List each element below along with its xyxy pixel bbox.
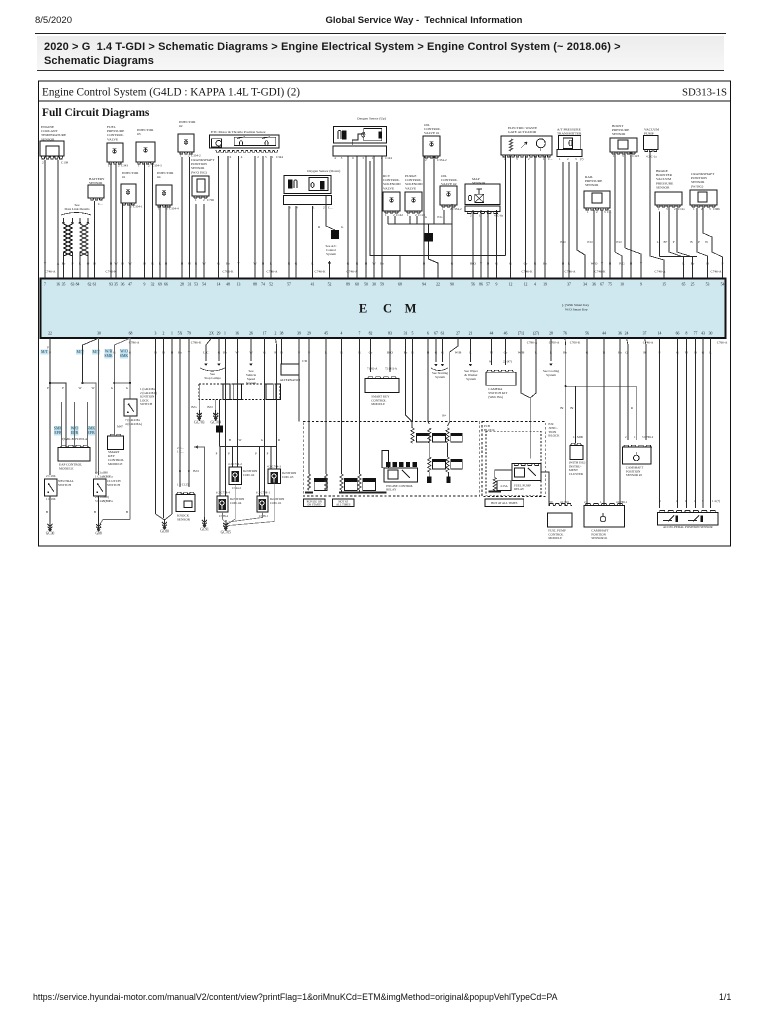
svg-text:System: System [326,252,336,256]
svg-text:W: W [78,386,81,390]
svg-text:B: B [110,262,113,266]
wire [238,156,240,278]
svg-text:B: B [179,469,182,473]
svg-text:1: 1 [272,155,274,159]
svg-text:M: M [405,302,417,316]
svg-text:Br: Br [543,262,547,266]
svg-text:B: B [121,262,124,266]
svg-text:C12a: C12a [678,207,685,211]
svg-text:B: B [126,510,129,514]
svg-text:1: 1 [224,332,226,336]
svg-text:P: P [216,452,218,456]
wire [110,164,112,278]
svg-text:34: 34 [583,283,587,287]
relay box grounds [427,476,431,483]
fuel pump relay feed wires [521,338,530,459]
svg-text:EPB: EPB [54,431,62,435]
wire [562,162,564,278]
junction dot A [49,382,51,384]
svg-text:B: B [365,262,368,266]
svg-text:66: 66 [676,332,680,336]
wire [63,258,65,278]
svg-text:B/O: B/O [470,262,476,266]
svg-text:GATE ACTUATOR: GATE ACTUATOR [508,130,537,134]
svg-text:P: P [673,240,675,244]
svg-text:BLOCK: BLOCK [548,434,560,438]
svg-text:C334-1: C334-1 [133,205,143,209]
svg-text:60: 60 [355,283,359,287]
wire [94,204,96,278]
25A fuse [493,478,496,491]
wire [262,156,264,278]
svg-text:(W/O ISG): (W/O ISG) [191,170,207,174]
knock sensor wires [179,338,181,487]
svg-text:90: 90 [450,283,454,287]
wire [487,210,489,278]
wire [451,204,453,278]
svg-text:B: B [690,240,693,244]
svg-text:1: 1 [313,206,315,210]
svg-text:26: 26 [249,332,253,336]
wire pin22 to neutral switch [49,338,51,475]
ignition coil supply junction [216,426,223,433]
svg-text:P: P [698,240,700,244]
svg-text:(?): (?) [580,157,583,161]
svg-text:1: 1 [559,157,561,161]
wire [312,206,314,278]
svg-text:L: L [657,240,659,244]
ground GC80 [162,522,167,524]
svg-text:M47: M47 [117,425,123,429]
wire [122,203,124,278]
svg-text:B: B [229,438,231,442]
svg-text:43: 43 [701,332,705,336]
svg-text:Br: Br [570,406,574,410]
svg-text:MODULE: MODULE [59,467,74,471]
svg-text:1: 1 [634,435,636,439]
svg-text:W: W [128,262,132,266]
svg-text:3: 3 [487,214,489,218]
svg-text:B/O: B/O [207,405,213,409]
svg-text:L: L [568,262,570,266]
svg-text:W: W [253,262,257,266]
svg-text:5: 5 [702,499,704,503]
wire [165,205,167,278]
svg-text:1 2 C125: 1 2 C125 [177,483,189,487]
ground GC705 [223,523,228,525]
wire [356,156,358,278]
svg-text:6: 6 [230,155,232,159]
wire [601,210,603,278]
svg-text:28: 28 [549,332,553,336]
svg-text:SENSOR: SENSOR [585,183,599,187]
title bar divider [39,100,731,102]
see wiper washer system [470,338,472,362]
svg-text:2: 2 [203,198,205,202]
svg-text:10: 10 [620,283,624,287]
svg-text:4 25A: 4 25A [500,484,508,488]
svg-text:1 C1aB(B0Ea: 1 C1aB(B0Ea [95,474,113,478]
svg-text:C...: C... [548,157,553,161]
relay merge wires [406,338,413,422]
vehicle speed wire [250,338,252,361]
svg-text:W/B: W/B [105,350,113,354]
wire [593,210,595,278]
svg-text:C: C [383,302,392,316]
svg-text:TRANSMITTER: TRANSMITTER [557,132,582,136]
wire [181,157,183,278]
svg-text:47: 47 [128,283,132,287]
wire [472,210,474,278]
wire [227,156,229,278]
noise capacitor wire [326,206,335,230]
svg-text:29: 29 [217,332,221,336]
svg-text:R: R [534,262,537,266]
ground junction block [428,224,430,233]
svg-text:1 C...: 1 C... [177,450,184,454]
svg-text:W: W [489,360,492,364]
svg-text:Oxygen Sensor (Up): Oxygen Sensor (Up) [357,117,387,121]
svg-text:4: 4 [494,214,496,218]
svg-text:SENSOR: SENSOR [89,181,103,185]
CKP ISG wires [697,208,708,278]
svg-text:5 C1aB(B0Ea: 5 C1aB(B0Ea [95,499,113,503]
heater supply jog line [370,161,506,255]
wire [544,156,546,278]
oil control valve 1 wire to bus [433,156,435,224]
accel pedal position sensor [659,338,661,508]
svg-text:2: 2 [275,332,277,336]
svg-text:2: 2 [148,164,150,168]
svg-text:A: A [57,262,60,266]
svg-text:Stop Lamps: Stop Lamps [204,376,221,380]
svg-text:C...: C... [328,206,333,210]
run label [304,499,326,507]
svg-text:System: System [435,375,445,379]
svg-text:22: 22 [436,283,440,287]
solenoid ground bus [388,223,452,225]
svg-text:C766-A: C766-A [717,341,728,345]
svg-text:7: 7 [359,332,361,336]
svg-text:B/O: B/O [193,469,199,473]
svg-text:13: 13 [237,283,241,287]
coil ground bus [229,485,236,524]
svg-text:P/O: P/O [587,240,593,244]
svg-text:L: L [79,262,81,266]
svg-text:W/O Smart Key: W/O Smart Key [565,308,588,312]
svg-text:C786-K: C786-K [191,341,202,345]
wire [218,156,220,278]
svg-text:83: 83 [388,332,392,336]
EPB control module [60,445,89,447]
wire [129,203,131,278]
svg-text:29: 29 [307,332,311,336]
svg-text:ACCEL PEDAL POSITION SENSOR: ACCEL PEDAL POSITION SENSOR [663,525,713,529]
svg-text:L: L [159,262,161,266]
svg-text:C139: C139 [61,161,68,165]
main relay dashed box [303,422,480,497]
fuse 2 [325,338,327,474]
knock shield to ground [194,447,205,517]
svg-text:88: 88 [253,283,257,287]
svg-text:Br: Br [560,406,564,410]
svg-text:R: R [188,469,191,473]
svg-text:24: 24 [625,332,629,336]
svg-text:30: 30 [97,332,101,336]
svg-text:41: 41 [311,283,315,287]
svg-text:BLOCK: BLOCK [484,428,496,432]
svg-text:Oxygen Sensor (Down): Oxygen Sensor (Down) [307,169,341,173]
svg-text:C124: C124 [385,156,392,160]
svg-text:Br: Br [62,262,66,266]
svg-text:R: R [288,262,291,266]
svg-text:22: 22 [48,332,52,336]
svg-text:GC91: GC91 [200,528,209,532]
svg-text:Br: Br [226,262,230,266]
svg-text:2: 2 [425,158,427,162]
svg-text:4: 4 [241,155,243,159]
svg-text:C746-A: C746-A [711,269,722,273]
svg-text:68: 68 [398,283,402,287]
svg-text:3: 3 [362,156,364,160]
svg-text:SWITCH: SWITCH [58,483,72,487]
wire [57,165,59,278]
M/T highlighted labels [41,349,49,354]
svg-text:1: 1 [372,156,374,160]
svg-text:P/O: P/O [616,240,622,244]
svg-text:C334-2: C334-2 [191,154,201,158]
svg-text:B: B [165,262,168,266]
svg-text:39: 39 [297,332,301,336]
svg-text:(27): (27) [533,332,540,336]
svg-text:C746-A: C746-A [347,269,358,273]
vacuum pump wire [650,152,664,278]
svg-text:B: B [487,262,490,266]
ignition lock switch [124,399,137,416]
svg-text:P/O: P/O [560,240,566,244]
svg-text:B/G: B/G [191,405,197,409]
svg-text:B: B [562,262,565,266]
svg-text:W/O: W/O [120,350,128,354]
svg-text:38: 38 [280,332,284,336]
wire [381,156,383,278]
svg-text:9: 9 [496,283,498,287]
svg-text:C706: C706 [207,198,214,202]
wire [115,164,117,278]
svg-text:32: 32 [151,283,155,287]
svg-text:75: 75 [608,283,612,287]
ER junction connector row [199,384,280,400]
svg-text:5: 5 [265,155,267,159]
svg-text:7 (41)-A: 7 (41)-A [367,367,378,371]
svg-text:21: 21 [469,332,473,336]
smart key feed bend to ground [100,520,130,524]
svg-text:14 M06: 14 M06 [573,435,583,439]
wire [152,163,154,278]
svg-text:SMK: SMK [87,427,96,431]
svg-text:W: W [238,438,241,442]
svg-text:G: G [347,262,350,266]
svg-text:69: 69 [158,283,162,287]
svg-text:G: G [425,215,428,219]
svg-text:2: 2 [596,210,598,214]
svg-text:G08: G08 [95,532,101,536]
svg-text:3: 3 [516,157,518,161]
svg-text:2: 2 [257,155,259,159]
svg-text:GC30: GC30 [46,532,55,536]
svg-text:C700-A: C700-A [549,341,560,345]
camera switch kit [491,338,493,365]
svg-text:2: 2 [625,435,627,439]
svg-text:VALVE #1: VALVE #1 [424,131,440,135]
svg-text:System: System [546,373,556,377]
svg-text:62: 62 [88,283,92,287]
svg-text:SMK: SMK [120,354,129,358]
svg-text:66: 66 [164,283,168,287]
svg-text:4: 4 [334,156,336,160]
svg-text:89: 89 [346,283,350,287]
svg-text:46: 46 [504,332,508,336]
svg-text:1: 1 [587,210,589,214]
svg-text:B: B [609,262,612,266]
svg-text:C700-K: C700-K [570,341,581,345]
svg-text:8: 8 [686,332,688,336]
svg-text:[71]: [71] [518,332,524,336]
svg-text:SD313-1S: SD313-1S [682,87,727,99]
svg-text:37: 37 [643,332,647,336]
svg-text:W/B: W/B [455,351,462,355]
svg-text:G: G [495,262,498,266]
wire [365,156,367,278]
wire [195,204,197,278]
svg-text:B+: B+ [663,240,667,244]
svg-text:P: P [255,452,257,456]
svg-text:54: 54 [721,283,725,287]
svg-text:Br: Br [380,262,384,266]
svg-text:2: 2 [470,214,472,218]
svg-text:P: P [228,452,230,456]
svg-text:R: R [195,262,198,266]
wire pin30 [83,338,99,383]
svg-text:44: 44 [602,332,606,336]
svg-text:Gr: Gr [524,262,529,266]
wire [79,258,81,278]
svg-text:ALTERNATOR: ALTERNATOR [280,378,301,382]
alternator sense wire [298,338,300,422]
PCB block dashed box [482,422,545,497]
coil signal wires [225,338,227,496]
svg-text:35: 35 [114,283,118,287]
camshaft position sensor 2 [627,338,629,440]
noise capacitor [331,230,339,239]
svg-text:57: 57 [486,283,490,287]
svg-text:3: 3 [341,156,343,160]
coil supply bus [220,446,277,448]
svg-text:14: 14 [217,283,221,287]
svg-text:P: P [47,346,49,350]
camshaft position sensor 1 [586,338,588,505]
ground GC704 [213,413,218,415]
svg-text:77: 77 [694,332,698,336]
svg-text:56: 56 [585,332,589,336]
wire through ignition lock switch [129,338,131,383]
wire [44,165,46,278]
svg-text:6 2 C738-1: 6 2 C738-1 [256,491,270,495]
svg-text:61: 61 [93,283,97,287]
svg-text:P: P [47,386,49,390]
svg-text:25: 25 [691,283,695,287]
svg-text:61: 61 [441,332,445,336]
fuse ground bar [488,491,501,493]
svg-text:3: 3 [575,157,577,161]
svg-text:C746-A: C746-A [45,269,56,273]
svg-text:15: 15 [662,283,666,287]
wires to GC80 ground [155,338,157,514]
svg-text:63: 63 [71,283,75,287]
svg-text:Br: Br [691,262,695,266]
svg-text:W/O: W/O [591,262,598,266]
svg-text:B+: B+ [442,414,446,418]
svg-text:M/T: M/T [41,350,49,354]
svg-text:C746-K: C746-K [522,269,533,273]
svg-text:[-] With Smart Key: [-] With Smart Key [562,303,589,307]
svg-text:C746-A: C746-A [565,269,576,273]
svg-text:5 C769-2: 5 C769-2 [642,435,654,439]
svg-text:C738-4: C738-4 [219,514,229,518]
svg-text:C343: C343 [121,164,128,168]
svg-text:5: 5 [412,332,414,336]
svg-text:65: 65 [682,283,686,287]
svg-text:SWITCH: SWITCH [107,483,121,487]
svg-text:1: 1 [171,332,173,336]
hot at all times label [333,499,355,507]
svg-text:C334-3: C334-3 [152,164,162,168]
ground GC91 [202,520,207,522]
svg-text:6 2 C738-4: 6 2 C738-4 [216,491,230,495]
wire [203,204,205,278]
svg-text:1: 1 [693,207,695,211]
svg-text:Data Link Details: Data Link Details [65,207,91,211]
svg-text:6: 6 [352,156,354,160]
svg-text:R: R [278,438,281,442]
wire [189,157,191,278]
svg-text:12: 12 [509,283,513,287]
svg-text:COIL #3: COIL #3 [282,475,294,479]
svg-text:COIL #2: COIL #2 [243,473,255,477]
svg-text:67: 67 [600,283,604,287]
wire [510,156,512,278]
svg-text:16: 16 [56,283,60,287]
svg-text:2: 2 [674,207,676,211]
svg-text:#2: #2 [179,124,183,128]
ground GC30 [48,524,53,526]
svg-text:14: 14 [658,332,662,336]
svg-text:R: R [151,262,154,266]
svg-text:R: R [356,262,359,266]
svg-text:1: 1 [658,207,660,211]
svg-text:W: W [114,262,118,266]
svg-text:3: 3 [604,210,606,214]
svg-text:R: R [631,406,634,410]
svg-text:9: 9 [144,283,146,287]
svg-text:1 4 (7): 1 4 (7) [712,499,720,503]
svg-text:GC705: GC705 [221,531,232,535]
svg-text:30: 30 [709,332,713,336]
svg-text:VALVE: VALVE [107,137,118,141]
svg-text:CLUSTER: CLUSTER [569,472,584,476]
svg-text:4 2 C744-3: 4 2 C744-3 [267,465,281,469]
svg-text:53: 53 [706,283,710,287]
